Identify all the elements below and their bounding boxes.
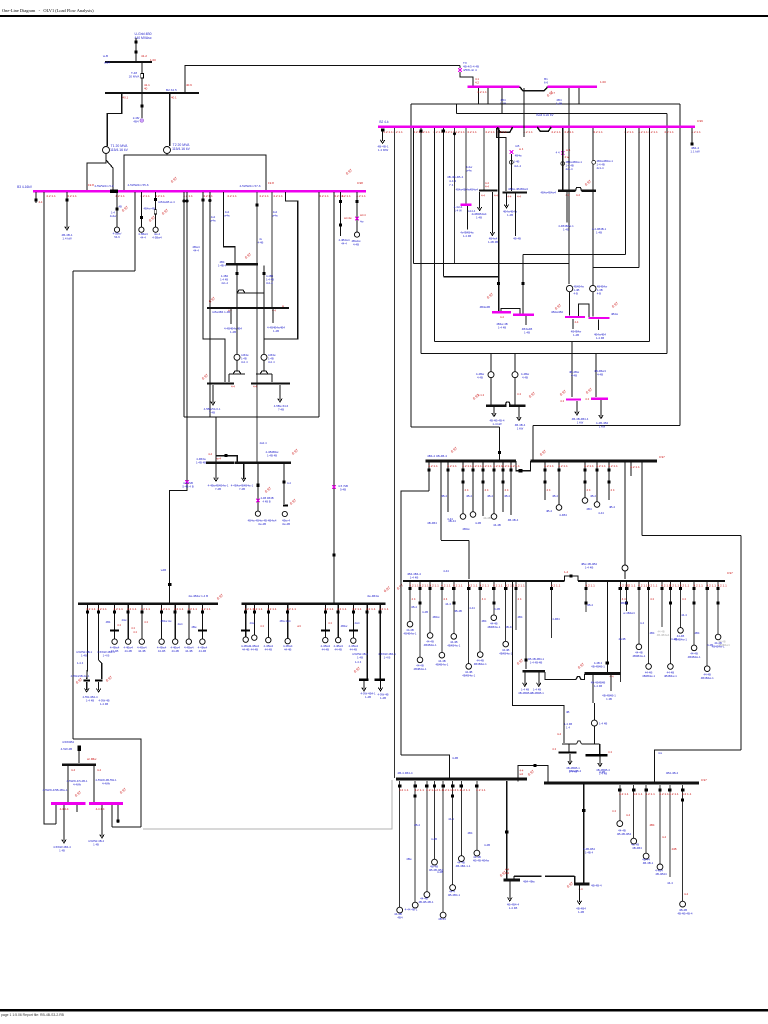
wire T4a out: [236, 360, 238, 371]
busJ check b: [528, 391, 536, 398]
breaker busL 18: [679, 587, 682, 590]
svg-text:4.2 1.1: 4.2 1.1: [551, 584, 561, 588]
subI2a check: [353, 666, 361, 673]
wire subnet feed a: [525, 582, 527, 669]
svg-text:4x14-4: 4x14-4: [467, 209, 476, 213]
svg-text:4-4B: 4-4B: [707, 643, 713, 647]
svg-text:4B4: 4B4: [650, 631, 655, 635]
svg-text:7-4B: 7-4B: [239, 487, 245, 491]
generator G1: [591, 720, 597, 726]
svg-text:4.2 1.1: 4.2 1.1: [482, 464, 492, 468]
wire busI drop 8: [201, 605, 203, 639]
svg-text:4B4w4B: 4B4w4B: [480, 305, 491, 309]
wire X3 drop: [511, 154, 513, 191]
contactor B-left 5: [451, 795, 454, 798]
svg-text:w 4: w 4: [519, 147, 524, 151]
svg-text:4.2 1.1: 4.2 1.1: [680, 584, 690, 588]
svg-text:4.2 1.1: 4.2 1.1: [67, 194, 77, 198]
breaker busI 4: [140, 611, 143, 614]
breaker B-left 2: [425, 784, 428, 787]
breaker busI2 1: [253, 611, 256, 614]
wire busI2 drop 2: [267, 605, 269, 638]
wire V184: [183, 192, 185, 417]
wire busH drop a: [215, 464, 217, 479]
motor busK 10: [582, 498, 588, 504]
D155 check: [148, 215, 156, 222]
svg-text:4.2 1.1: 4.2 1.1: [670, 584, 680, 588]
svg-text:4B-4: 4B-4: [411, 605, 417, 609]
wire TX1 drop upper: [459, 66, 461, 69]
contactor busK 8: [544, 481, 547, 484]
svg-text:40: 40: [144, 87, 148, 91]
svg-text:44-4B: 44-4B: [334, 648, 342, 652]
load arrow subI2a: [362, 688, 366, 692]
breaker S2a: [606, 661, 609, 664]
svg-text:44-4: 44-4: [193, 249, 199, 253]
motor busL 6: [477, 652, 483, 658]
wire busF drop b: [279, 385, 281, 400]
svg-text:4.2 1.1: 4.2 1.1: [479, 584, 489, 588]
wire F8 to M0: [465, 128, 467, 204]
junction dot V209: [208, 199, 211, 202]
wire sub I2b drop: [380, 681, 382, 689]
breaker B-left 5: [451, 784, 454, 787]
bus3 check a: [170, 176, 178, 183]
breaker busI 6: [174, 611, 177, 614]
svg-text:4B-4B-4: 4B-4B-4: [508, 518, 519, 522]
wire busQ drop b: [491, 192, 493, 234]
svg-text:1-4B: 1-4B: [556, 102, 562, 106]
svg-text:4-4: 4-4: [610, 675, 614, 679]
bus C2: [574, 883, 590, 886]
svg-text:4B4: 4B4: [133, 120, 139, 124]
svg-text:4B-4B4-1: 4B-4B4-1: [448, 893, 461, 897]
svg-text:44w: 44w: [250, 621, 255, 625]
wire barB feed: [599, 744, 601, 754]
wire busB to T2: [169, 94, 171, 146]
svg-text:7-4B: 7-4B: [278, 407, 284, 411]
M5a check: [74, 790, 82, 797]
breaker busL 21: [717, 587, 720, 590]
svg-text:4.2 1.1: 4.2 1.1: [113, 607, 123, 611]
busL check w: [396, 583, 404, 590]
svg-text:4.2 1.1: 4.2 1.1: [86, 607, 96, 611]
breaker busL 11: [585, 587, 588, 590]
wire M5b drop b: [111, 805, 113, 827]
M2 bridge: [578, 304, 589, 317]
svg-text:4.2 1.1: 4.2 1.1: [453, 584, 463, 588]
breaker busK 2: [461, 468, 464, 471]
svg-text:4B4B4w-1: 4B4B4w-1: [701, 676, 714, 680]
breaker B-left 0: [398, 784, 401, 787]
fuse D155: [154, 210, 156, 214]
breaker busK 0: [427, 468, 430, 471]
load arrow busQ b: [490, 232, 494, 236]
wire bus1 drop c: [478, 88, 480, 104]
svg-text:1-4 4: 1-4 4: [355, 660, 362, 664]
wire C1-C2 link: [514, 875, 542, 877]
wire busI deep b tail: [99, 660, 102, 679]
breaker CB-U1: [134, 40, 137, 43]
breaker x36: [35, 199, 38, 202]
svg-text:w-B: w-B: [103, 54, 108, 58]
breaker busL 6: [479, 587, 482, 590]
motor busK 5: [491, 514, 497, 520]
busG b check: [264, 486, 272, 493]
svg-text:1 kW: 1 kW: [577, 421, 584, 425]
svg-text:0.97: 0.97: [611, 301, 619, 308]
wire sub Ia drop: [86, 682, 88, 690]
svg-text:1-4 4B: 1-4 4B: [509, 906, 518, 910]
breaker busL 13: [625, 587, 628, 590]
svg-text:4.2 1.1: 4.2 1.1: [442, 788, 452, 792]
motor busL 8: [503, 641, 509, 647]
bus M5b magenta: [89, 802, 123, 805]
wire T1 secondary: [87, 154, 106, 191]
svg-text:4B4w: 4B4w: [515, 154, 523, 158]
svg-text:4-4: 4-4: [626, 813, 630, 817]
svg-text:1 4B: 1 4B: [93, 842, 99, 846]
svg-text:4/5W-4c 4: 4/5W-4c 4: [463, 68, 477, 72]
svg-text:4B-4B4-1-1: 4B-4B4-1-1: [456, 864, 471, 868]
svg-text:1-4 4B: 1-4 4B: [498, 325, 506, 329]
motor busI 7: [186, 639, 191, 644]
wire busK drop 1: [447, 462, 449, 512]
svg-text:4 4B B: 4 4B B: [263, 500, 271, 504]
generator G2 feed: [78, 746, 82, 752]
wire H425: [533, 425, 680, 427]
svg-text:4B4w: 4B4w: [611, 312, 619, 316]
wire busK drop 4: [482, 462, 484, 516]
svg-text:4B4w-4B: 4B4w-4B: [144, 207, 155, 211]
wire busI2 drop 5: [337, 605, 339, 638]
wire barB drop: [599, 757, 601, 765]
svg-text:4Bw: 4Bw: [406, 857, 412, 861]
svg-text:4.2 1.1: 4.2 1.1: [558, 464, 568, 468]
wire busL drop 12: [619, 582, 621, 682]
T4a H-link: [233, 371, 241, 374]
T-bar Ia: [83, 680, 90, 682]
svg-text:4 4: 4 4: [505, 488, 509, 492]
svg-text:0.97: 0.97: [75, 677, 83, 684]
switch X4: [185, 480, 189, 484]
wire H271: [73, 270, 135, 272]
breaker busI2 3: [286, 611, 289, 614]
svg-text:440 MVAsc: 440 MVAsc: [134, 36, 151, 40]
wire busL drop 2: [429, 582, 431, 633]
wire B-left drop 5: [452, 781, 454, 885]
wire busN drop b: [515, 194, 517, 236]
svg-text:4-4: 4-4: [508, 195, 512, 199]
svg-text:4B4-4Bw: 4B4-4Bw: [523, 880, 536, 884]
svg-text:4B-4B: 4B-4B: [454, 609, 462, 613]
wire busD leg L: [236, 265, 238, 307]
svg-text:1-4B 4B: 1-4B 4B: [196, 460, 206, 464]
svg-text:4B-4: 4B-4: [487, 494, 493, 498]
svg-text:5-4B: 5-4B: [340, 488, 346, 492]
wire M2a drop: [572, 319, 574, 329]
svg-text:4B4B: 4B4B: [621, 601, 628, 605]
motor B-right 0: [617, 821, 623, 827]
wire F4: [420, 128, 422, 354]
svg-text:4B4B4w-1: 4B4B4w-1: [447, 644, 460, 648]
svg-text:4-4B4: 4-4B4: [552, 617, 560, 621]
breaker busL 14: [637, 587, 640, 590]
wire bus1 drop b: [568, 88, 570, 284]
wire busI drop 6: [174, 605, 176, 639]
busP link: [576, 188, 582, 191]
breaker S1a: [525, 658, 528, 661]
svg-text:4 4: 4 4: [131, 626, 135, 630]
wire bus3 stub x36: [35, 192, 37, 203]
svg-text:w: w: [282, 305, 284, 308]
load arrow busN a: [504, 205, 508, 209]
svg-text:4 4: 4 4: [465, 488, 469, 492]
bus C1: [504, 879, 520, 882]
svg-text:4x1-4: 4x1-4: [566, 167, 573, 171]
svg-text:4B-44: 4B-44: [448, 519, 456, 523]
wire busL drop 16: [661, 582, 663, 627]
busI check: [216, 593, 224, 600]
svg-text:4-4: 4-4: [253, 385, 257, 389]
breaker D203: [201, 198, 204, 201]
wire B-left drop 0: [399, 781, 401, 908]
T-bar I2a: [359, 679, 368, 681]
svg-text:4.2 1.1: 4.2 1.1: [493, 584, 503, 588]
machine D155 motor: [153, 227, 158, 232]
svg-text:20 MVA: 20 MVA: [129, 75, 139, 79]
motor busK 2: [460, 514, 466, 520]
motor busI2 6: [351, 638, 356, 643]
svg-text:4B4w4B4: 4B4w4B4: [551, 310, 563, 314]
wire bus3 drop x155: [155, 192, 157, 227]
wire barA feed: [568, 744, 570, 752]
motor B-left 5: [450, 885, 456, 891]
svg-text:4B-4: 4B-4: [590, 494, 596, 498]
svg-text:4-B4w4B w-4: 4-B4w4B w-4: [158, 200, 175, 204]
breaker busI 5: [160, 611, 163, 614]
svg-text:0.97: 0.97: [566, 881, 574, 888]
switch busG b: [256, 499, 260, 503]
svg-text:4-5Bw4: 4-5Bw4: [152, 235, 162, 239]
wire F7: [454, 128, 456, 264]
svg-text:4B4B4w-1: 4B4B4w-1: [414, 667, 427, 671]
svg-text:4.1 4: 4.1 4: [478, 393, 485, 397]
wire wall V209: [209, 192, 211, 417]
svg-text:44-4: 44-4: [445, 602, 451, 606]
svg-text:w4w: w4w: [272, 213, 277, 217]
transformer T6: [590, 285, 596, 291]
motor busK 9: [556, 505, 562, 511]
wire busK drop 2: [462, 462, 464, 514]
svg-text:1-4B: 1-4B: [524, 330, 530, 334]
svg-text:4 4: 4 4: [144, 620, 148, 624]
wire busE leg R: [263, 309, 265, 354]
wire M5a drop b: [63, 805, 65, 841]
title rule: [0, 15, 768, 17]
wire busI drop 5: [161, 605, 163, 639]
breaker bridge HG: [225, 454, 228, 457]
svg-text:19.8: 19.8: [88, 183, 94, 187]
wire M3b feed: [595, 354, 597, 398]
load arrow F1: [380, 140, 384, 144]
wire G1 feed: [593, 703, 595, 720]
svg-text:0.97: 0.97: [396, 583, 404, 590]
breaker D341: [339, 200, 342, 203]
svg-text:40.9: 40.9: [186, 83, 192, 87]
svg-text:4.2: 4.2: [475, 81, 479, 85]
svg-text:0.97: 0.97: [383, 586, 391, 593]
svg-text:4B-4B-4B4: 4B-4B-4B4: [617, 832, 632, 836]
breaker busK 11: [595, 468, 598, 471]
legs H-link: [237, 290, 245, 293]
svg-text:w4B: w4B: [161, 568, 166, 572]
breaker D141: [140, 216, 143, 219]
breaker busG c: [283, 480, 286, 483]
wire busL1 drop b: [93, 766, 95, 802]
bus K east: [531, 460, 658, 463]
svg-text:4-4B: 4-4B: [597, 373, 603, 377]
svg-text:4-4B: 4-4B: [431, 837, 437, 841]
load arrow M5b: [100, 835, 104, 839]
svg-text:4.2 1.1: 4.2 1.1: [227, 194, 237, 198]
svg-text:4.2 1.1: 4.2 1.1: [477, 90, 487, 94]
wire busB up-right to east: [185, 66, 460, 94]
wire busE leg L: [236, 309, 238, 354]
svg-text:1-4 4B: 1-4 4B: [100, 702, 108, 706]
svg-text:4B-4B44: 4B-4B44: [655, 872, 667, 876]
svg-text:4B4-4B-4: 4B4-4B-4: [666, 771, 679, 775]
load arrow M3b: [599, 415, 603, 419]
wire C2 step: [574, 876, 576, 883]
breaker busI2 5: [337, 611, 340, 614]
grey tie line: [143, 780, 392, 829]
breaker B-left 4: [441, 784, 444, 787]
svg-text:4 4: 4 4: [556, 151, 560, 155]
svg-text:4w4B: 4w4B: [619, 637, 626, 641]
svg-text:4B4w 4w: 4B4w 4w: [161, 619, 172, 623]
svg-text:4.2 1.1: 4.2 1.1: [419, 584, 429, 588]
svg-text:4-4B: 4-4B: [437, 870, 443, 874]
wire C1 drop: [509, 881, 511, 899]
contactor B-right deep: [681, 799, 684, 802]
wire sub Ib drop: [98, 682, 100, 690]
svg-text:4-4B 4B4B: 4-4B 4B4B: [261, 496, 274, 500]
load arrow D67: [65, 227, 69, 231]
svg-text:4B-4B-1: 4B-4B-1: [643, 861, 654, 865]
contactor busL 13: [625, 602, 628, 605]
svg-text:1-4B: 1-4B: [365, 695, 371, 699]
motor busK 11: [594, 502, 600, 508]
contactor busL 4: [452, 602, 455, 605]
wire busL drop 1: [419, 582, 421, 657]
svg-text:4.2 1.1: 4.2 1.1: [619, 792, 629, 796]
motor busL 2: [427, 633, 433, 639]
wire M5a drop c: [76, 805, 78, 812]
svg-text:4-44: 4-44: [469, 606, 475, 610]
load arrow busF b: [278, 399, 282, 403]
wire B-left drop 1: [414, 781, 416, 903]
motor busI 2: [112, 639, 117, 644]
bus M0 magenta mini: [461, 204, 472, 206]
wire busG drop b: [257, 464, 259, 511]
svg-text:4B4: 4B4: [518, 615, 523, 619]
wire busK drop 6: [502, 462, 504, 512]
wire V741: [740, 535, 742, 750]
bus N: [502, 191, 527, 193]
svg-text:4.2 1.1: 4.2 1.1: [447, 464, 457, 468]
breaker busI2 2: [267, 611, 270, 614]
wire F10: [498, 128, 500, 310]
svg-text:4.2 1.1: 4.2 1.1: [414, 788, 424, 792]
wire V680 east wall: [679, 104, 681, 426]
svg-text:4 4: 4 4: [560, 399, 564, 403]
wire sub I2a drop: [363, 681, 365, 689]
svg-text:4.2 1.1: 4.2 1.1: [273, 194, 283, 198]
breaker busK 4: [481, 468, 484, 471]
wire busL drop 4: [453, 582, 455, 634]
S1 check: [516, 658, 524, 665]
svg-text:4B4w-4B4B4w4: 4B4w-4B4B4w4: [508, 187, 528, 191]
wire busK drop 3: [472, 462, 474, 512]
svg-text:4B-44: 4B-44: [505, 625, 513, 629]
M1 check: [486, 292, 494, 299]
bus L west: [403, 580, 565, 582]
svg-text:4.2 1.1: 4.2 1.1: [706, 584, 716, 588]
svg-text:4 4: 4 4: [412, 597, 416, 601]
motor B-left 1: [412, 902, 418, 908]
svg-text:1-4B: 1-4B: [380, 696, 386, 700]
svg-text:0.97: 0.97: [450, 446, 458, 453]
svg-text:4B4w: 4B4w: [462, 527, 470, 531]
svg-text:44 4B: 44 4B: [657, 630, 664, 634]
svg-text:4-4: 4-4: [576, 193, 580, 197]
breaker M1b: [522, 282, 525, 285]
svg-text:1-4B 4: 1-4B 4: [218, 263, 227, 267]
svg-text:1-4 4B: 1-4 4B: [596, 336, 604, 340]
motor busL 20: [704, 666, 710, 672]
svg-text:4B-4: 4B-4: [587, 603, 593, 607]
svg-text:1-4B: 1-4B: [81, 653, 87, 657]
svg-text:7-4B: 7-4B: [215, 487, 221, 491]
svg-text:1-4B: 1-4B: [573, 333, 579, 337]
svg-text:4.2 1.1: 4.2 1.1: [127, 607, 137, 611]
svg-text:4.2 1.1: 4.2 1.1: [485, 130, 495, 134]
svg-text:4w: 4w: [360, 220, 363, 224]
svg-text:4B4B4w-1: 4B4B4w-1: [499, 651, 512, 655]
svg-text:4.2 1.1: 4.2 1.1: [259, 194, 269, 198]
svg-text:1.4 kW: 1.4 kW: [62, 237, 72, 241]
breaker D67: [65, 198, 68, 201]
svg-text:w-4: w-4: [217, 457, 222, 461]
load arrow busJ b: [517, 417, 521, 421]
svg-text:w4w: w4w: [210, 218, 215, 222]
busP check: [584, 179, 592, 186]
junction dot V184: [182, 199, 185, 202]
svg-text:0.97: 0.97: [727, 571, 733, 575]
wire busB stub: [141, 94, 143, 118]
bus M3b magenta: [591, 398, 608, 400]
wire busK long drop x642: [641, 462, 643, 535]
wire V667: [666, 114, 668, 354]
breaker F4: [419, 129, 422, 132]
motor B-left 4: [440, 912, 446, 918]
svg-text:0.97: 0.97: [119, 787, 127, 794]
bus 3 magenta: [33, 190, 366, 193]
motor B-right 2: [643, 853, 649, 859]
bus1 check: [546, 90, 554, 97]
breaker busL 3: [440, 587, 443, 590]
